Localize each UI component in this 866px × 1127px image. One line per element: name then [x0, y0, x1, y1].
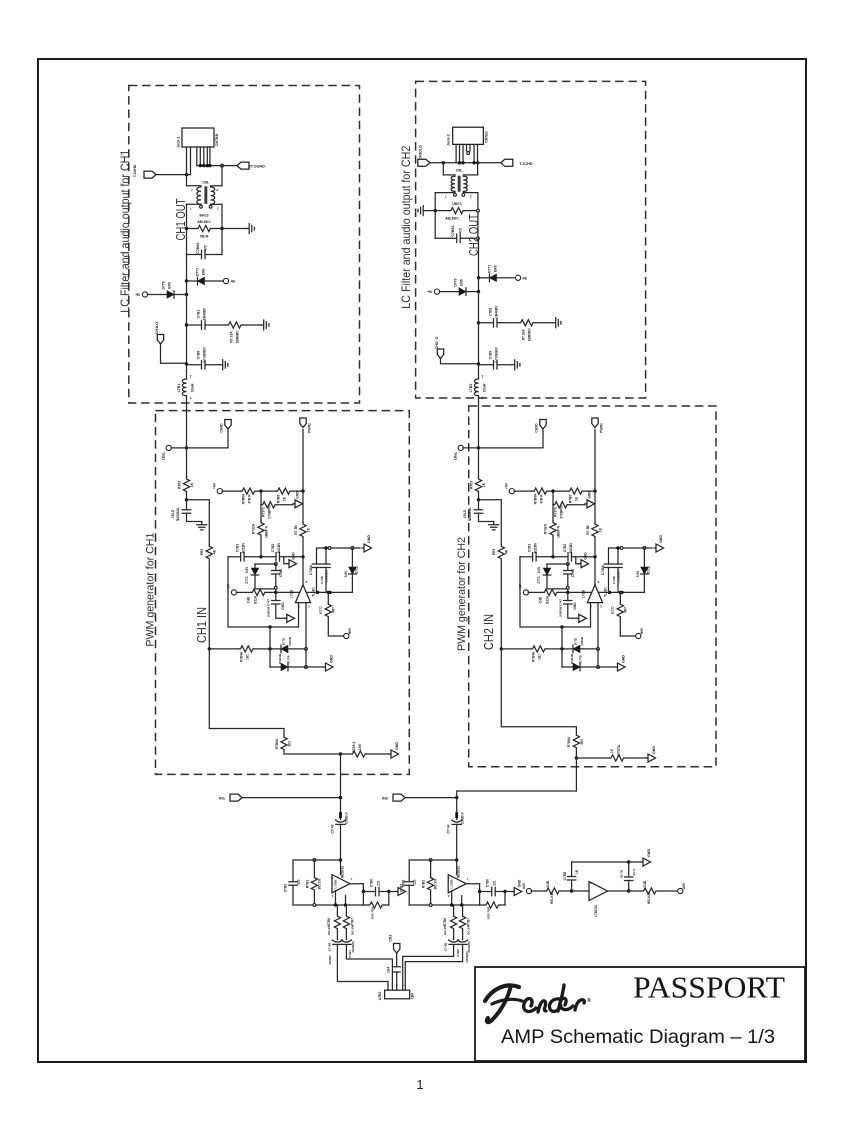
svg-text:R7B4A: R7B4A: [531, 651, 535, 662]
svg-text:ER6: ER6: [460, 279, 464, 286]
svg-text:R7B.7BR: R7B.7BR: [371, 906, 375, 920]
ground (earth): [489, 522, 499, 530]
wire to gnd arrow: [598, 666, 616, 668]
resistor R716A 47BR: [222, 490, 241, 492]
wire IN1 to trunk: [242, 797, 341, 799]
resistor R769 BO.1% (feedback): [313, 860, 315, 876]
resistor PR23 4K (trim): [498, 545, 504, 561]
resistor R721: [528, 591, 543, 593]
svg-text:B21BV: B21BV: [569, 542, 573, 553]
svg-text:R7 33A: R7 33A: [230, 331, 234, 343]
op-amp pin stubs to rail: [335, 891, 337, 905]
wire trunk: [478, 278, 480, 365]
wire to gnd arrow: [306, 666, 324, 668]
svg-text:C7B0: C7B0: [370, 879, 374, 887]
wire rail to R707: [260, 491, 262, 505]
wire CHD to trunk: [187, 429, 229, 448]
op-amp pin stubs: [590, 603, 592, 627]
wire to PR3: [187, 500, 210, 545]
resistor R713 1K: [186, 448, 188, 478]
svg-text:3K3: 3K3: [288, 741, 292, 747]
wire preamp out to connector (b): [405, 945, 462, 986]
svg-text:A8LEKC: A8LEKC: [197, 220, 211, 224]
wire preamp top rail: [293, 860, 341, 882]
svg-text:R732A: R732A: [252, 523, 256, 534]
terminal out (3rd stage): [678, 888, 683, 893]
svg-text:H9V: H9V: [640, 627, 644, 634]
svg-text:C7B2: C7B2: [563, 544, 567, 553]
diode D711 FR6: [187, 280, 198, 282]
capacitor C718 23UB6V: [332, 940, 342, 942]
svg-text:C4B: C4B: [546, 880, 550, 887]
svg-text:1B: 1B: [575, 869, 579, 874]
connector PWR1: [300, 418, 306, 428]
svg-text:R7 3B: R7 3B: [586, 525, 590, 535]
svg-text:C7B9: C7B9: [489, 351, 493, 360]
gnd arrow at output divider: [389, 753, 391, 755]
ground (earth): [197, 522, 207, 530]
wire bus from J701: [197, 165, 222, 167]
node 3rd stage input: [570, 889, 573, 892]
gnd arrow right cluster: [362, 547, 364, 549]
resistor PR13 4K (trim): [206, 545, 212, 561]
svg-text:3.UB0BV: 3.UB0BV: [617, 570, 621, 583]
node output: [575, 756, 578, 759]
resistor R754 (snubber): [435, 210, 449, 212]
svg-text:33uH: 33uH: [483, 383, 487, 392]
resistor R718 BO.1%: [336, 905, 338, 915]
svg-text:BA/13: BA/13: [199, 214, 208, 218]
inductor L72 33uH: [474, 379, 478, 396]
svg-text:1K: 1K: [610, 748, 614, 753]
svg-text:221: 221: [413, 879, 417, 885]
svg-text:Jack-1: Jack-1: [177, 136, 181, 147]
diode D714 1N4148: [270, 666, 281, 668]
svg-text:1N41B: 1N41B: [288, 637, 292, 646]
svg-text:C7B1: C7B1: [489, 307, 493, 316]
svg-text:23UB(6): 23UB(6): [465, 951, 469, 962]
svg-text:1: 1: [190, 396, 192, 400]
gnd arrow after R707: [277, 504, 293, 506]
ground (earth) at C: [512, 360, 520, 370]
svg-text:R7371: R7371: [554, 507, 558, 517]
node at trunk: [185, 362, 188, 365]
wire preamp out to connector (a): [337, 945, 388, 986]
dashed block: PWM generator for CH1: [156, 411, 410, 775]
svg-text:47B R: 47B R: [540, 494, 544, 504]
svg-text:C7 8B: C7 8B: [328, 942, 332, 951]
capacitor C726A: [608, 548, 610, 564]
svg-text:D7TD: D7TD: [574, 638, 578, 645]
svg-text:33uH: 33uH: [191, 383, 195, 392]
capacitor C716A: [316, 548, 318, 564]
svg-text:221: 221: [493, 880, 497, 886]
svg-text:®: ®: [587, 997, 591, 1004]
svg-text:1K: 1K: [307, 527, 311, 532]
capacitor C724 23UBV: [458, 940, 468, 942]
wire from CH2LO: [441, 359, 479, 364]
wire to T.2CH plug: [478, 162, 501, 164]
svg-text:1K: 1K: [599, 527, 603, 532]
terminal LINE: [166, 445, 171, 450]
svg-text:C7N0: C7N0: [279, 569, 283, 577]
resistor R712A: [258, 521, 264, 537]
wire to ground: [426, 210, 435, 212]
wire LINE to trunk: [463, 447, 479, 449]
connector J701 (speaker jack CH1): [182, 128, 214, 147]
svg-text:+B: +B: [522, 276, 527, 280]
wire preamp bottom rail: [409, 904, 479, 906]
svg-text:78LM: 78LM: [200, 235, 209, 239]
svg-text:BO.1%: BO.1%: [443, 925, 447, 935]
svg-text:1BuL: 1BuL: [162, 452, 166, 460]
svg-text:HELK24: HELK24: [647, 892, 651, 904]
wire trunk to PWM block: [186, 396, 188, 448]
svg-text:5.6V: 5.6V: [344, 570, 348, 577]
resistor R7H1 HELK24: [531, 890, 545, 892]
svg-text:C7B1: C7B1: [348, 950, 352, 958]
svg-text:+9V: +9V: [505, 482, 509, 489]
svg-text:R7B1: R7B1: [306, 880, 310, 889]
inductor L71 33uH: [182, 379, 186, 396]
wire bus from J751: [430, 162, 478, 164]
svg-text:+B: +B: [135, 293, 140, 297]
svg-text:CH3DLG: CH3DLG: [419, 145, 423, 160]
svg-text:ER6: ER6: [202, 269, 206, 276]
svg-text:1N414B: 1N414B: [278, 654, 282, 664]
diode D721 FR6: [479, 277, 490, 279]
svg-text:+9V: +9V: [213, 482, 217, 489]
svg-text:1N41B: 1N41B: [580, 637, 584, 646]
wire op-amp out: [608, 890, 629, 892]
svg-text:C7B2: C7B2: [271, 544, 275, 553]
svg-text:23UB0: 23UB0: [328, 955, 332, 965]
svg-text:A8LEKC: A8LEKC: [445, 217, 459, 221]
svg-text:4R7: 4R7: [624, 607, 628, 613]
diode D724 1N4148: [562, 666, 573, 668]
svg-text:47B R: 47B R: [248, 494, 252, 504]
svg-text:1BuL: 1BuL: [454, 452, 458, 460]
resistor R728 BO.1%: [453, 905, 455, 915]
svg-text:HELK24: HELK24: [550, 892, 554, 904]
svg-text:L: L: [190, 207, 192, 211]
svg-text:3UB0M C747: 3UB0M C747: [267, 599, 271, 618]
connector CB1 plug: [394, 944, 400, 954]
svg-text:GND: GND: [622, 655, 626, 663]
svg-text:ER6: ER6: [168, 282, 172, 289]
wire left to T.OUT plug: [156, 174, 191, 176]
svg-text:PWR1: PWR1: [308, 423, 312, 433]
svg-text:Jack-2: Jack-2: [447, 134, 451, 145]
svg-text:3.UB0BV: 3.UB0BV: [325, 570, 329, 583]
svg-text:CH1 IN: CH1 IN: [195, 607, 209, 643]
connector CH2DLG: [418, 159, 430, 166]
wire right cluster rail: [610, 547, 653, 549]
op-amp pin stubs: [298, 603, 300, 627]
node preamp rail: [455, 858, 458, 861]
svg-text:R777: R777: [319, 606, 323, 614]
svg-text:1BR0BV: 1BR0BV: [236, 330, 240, 344]
connector JA7B2 pins: [387, 986, 389, 991]
svg-text:GND: GND: [367, 535, 371, 543]
op-amp U71A NE5532 (preamp): [332, 875, 350, 893]
zener diode Z721 5.6V: [546, 564, 548, 568]
resistor R71B out: [363, 904, 368, 906]
resistor R727 BO.1%: [462, 905, 464, 915]
transformer CN1 (LC filter coil): [186, 175, 188, 186]
svg-text:1BBP N: 1BBP N: [265, 525, 269, 538]
resistor R725 1K: [549, 490, 568, 492]
wire trunk: [186, 365, 188, 379]
svg-text:GND: GND: [647, 849, 651, 857]
title block frame: [475, 967, 805, 1061]
capacitor C711 1B40BV: [185, 323, 188, 326]
svg-text:3K3: 3K3: [580, 739, 584, 745]
svg-text:Z7T1: Z7T1: [537, 576, 541, 584]
node output: [339, 752, 342, 755]
wire preamp out to connector (a): [403, 945, 454, 986]
gnd arrow at diode pair: [616, 666, 618, 668]
wire cluster loop: [228, 557, 299, 627]
svg-text:BO.1%: BO.1%: [467, 925, 471, 935]
wire LINE to trunk: [171, 447, 187, 449]
zener diode Z722 5.6V: [643, 548, 645, 567]
resistor R715 1K: [257, 490, 276, 492]
terminal -9V: [636, 633, 641, 638]
node below R703: [185, 498, 188, 501]
diode D713 1N4148: [270, 648, 281, 650]
resistor R723 1K: [478, 448, 480, 478]
Fender script logo: [485, 985, 584, 1022]
svg-text:C4B: C4B: [643, 880, 647, 887]
capacitor C715 to ground: [186, 500, 188, 510]
svg-text:D7T6: D7T6: [162, 281, 166, 289]
wire LC loop: [186, 204, 188, 255]
svg-text:C7B0: C7B0: [486, 879, 490, 887]
svg-text:H9V: H9V: [348, 627, 352, 634]
capacitor C714 23UBV: [341, 940, 351, 942]
svg-text:1B1: 1B1: [537, 654, 541, 660]
resistor R708A 3K3: [281, 736, 287, 752]
svg-text:C7B9: C7B9: [197, 351, 201, 360]
dashed block: LC Filter and audio output for CH2: [416, 81, 646, 398]
svg-text:5.6V: 5.6V: [636, 570, 640, 577]
wire op-amp output: [466, 884, 479, 892]
wire loop stub to diode node: [561, 627, 563, 649]
svg-text:B21BV: B21BV: [534, 542, 538, 553]
ground (earth) at LC loop: [246, 224, 254, 234]
svg-text:1K: 1K: [283, 496, 287, 501]
op-amp pin stubs to rail: [451, 891, 453, 905]
capacitor C711 B21BV: [228, 556, 241, 558]
wire cluster loop: [520, 557, 591, 627]
capacitor C7BC: [628, 881, 630, 892]
svg-text:5.6V: 5.6V: [245, 566, 249, 573]
capacitor C744 23UB.V (input coupling): [456, 798, 458, 820]
connector CH1LO: [157, 335, 163, 345]
svg-text:C7 43: C7 43: [331, 824, 335, 833]
transformer CN2 (LC filter coil): [442, 163, 444, 175]
svg-text:B21BV: B21BV: [242, 542, 246, 553]
svg-text:BO.1%: BO.1%: [434, 879, 438, 890]
diode D712 FR6: [142, 292, 147, 297]
svg-text:C74B: C74B: [320, 575, 324, 584]
wire diode loop: [269, 649, 271, 667]
connector PWR2: [592, 418, 598, 428]
svg-text:IN1: IN1: [219, 797, 225, 801]
resistor R714A input: [209, 648, 239, 650]
svg-text:C746A: C746A: [601, 564, 605, 575]
svg-text:UB/T3: UB/T3: [452, 202, 461, 206]
svg-text:D7TB: D7TB: [579, 655, 583, 662]
svg-text:L7DB: L7DB: [290, 589, 294, 598]
resistor R7H2 HELK24: [629, 890, 642, 892]
svg-text:472: 472: [204, 245, 208, 251]
svg-text:PR3: PR3: [200, 549, 204, 556]
svg-text:CH3D: CH3D: [220, 423, 224, 433]
svg-text:PWR1: PWR1: [600, 423, 604, 433]
connector IN1: [230, 794, 242, 801]
svg-text:AMP Schematic Diagram – 1/3: AMP Schematic Diagram – 1/3: [501, 1026, 775, 1048]
capacitor C762 221 (feedback): [289, 882, 297, 886]
wire from CH1LO: [161, 344, 187, 363]
svg-text:+B: +B: [427, 290, 432, 294]
svg-text:Z7T2: Z7T2: [647, 566, 651, 574]
gnd arrow below C747: [577, 617, 579, 619]
svg-text:2: 2: [190, 375, 192, 379]
capacitor C758A 472: [435, 237, 457, 239]
svg-text:R7B8A: R7B8A: [567, 736, 571, 747]
svg-text:23UB(6): 23UB(6): [467, 941, 471, 952]
capacitor C728 23UB6V: [449, 940, 459, 942]
svg-text:R732A: R732A: [544, 523, 548, 534]
terminal +9V at R711: [523, 590, 528, 595]
svg-text:C74B: C74B: [612, 575, 616, 584]
svg-text:C8L: C8L: [202, 180, 210, 184]
svg-text:D7TB: D7TB: [287, 655, 291, 662]
terminal +B: [515, 275, 520, 280]
capacitor C710: [275, 564, 277, 571]
svg-text:C7B9: C7B9: [456, 949, 460, 957]
svg-text:R7TETA: R7TETA: [617, 744, 621, 757]
svg-text:D7TD: D7TD: [282, 638, 286, 645]
wire output loop: [362, 892, 364, 906]
svg-text:4.7UB0BV: 4.7UB0BV: [495, 346, 499, 363]
svg-text:R7 3B: R7 3B: [294, 525, 298, 535]
svg-text:GND: GND: [330, 655, 334, 663]
connector T.OUT-CH1: [144, 171, 156, 178]
svg-text:C7 8B: C7 8B: [444, 942, 448, 951]
capacitor C767 221: [480, 891, 492, 893]
resistor R729 (carrier): [592, 523, 598, 539]
wire comparator output row: [599, 591, 645, 593]
svg-text:C7N0: C7N0: [571, 569, 575, 577]
zener diode Z711 5.6V: [254, 564, 256, 568]
ground (earth) at C: [220, 360, 228, 370]
connector IN2: [393, 794, 405, 801]
svg-text:C4B: C4B: [539, 596, 543, 603]
svg-text:T.3UHD: T.3UHD: [133, 164, 137, 177]
diode D722 FR6: [434, 289, 439, 294]
gnd arrow mid: [576, 557, 579, 564]
wire trunk to PWM block: [478, 396, 480, 448]
svg-text:4K: 4K: [505, 549, 509, 554]
resistor R756A 1BK: [576, 757, 609, 759]
svg-text:C7B1: C7B1: [236, 544, 240, 553]
svg-text:1B40BV: 1B40BV: [495, 305, 499, 318]
svg-text:C746A: C746A: [309, 564, 313, 575]
resistor R726A 47BR: [514, 490, 533, 492]
svg-text:CH1LO: CH1LO: [155, 322, 159, 334]
node below R703: [477, 498, 480, 501]
resistor R727 270BP: [552, 505, 554, 521]
svg-text:A8V: A8V: [682, 882, 686, 889]
svg-text:+B: +B: [230, 280, 235, 284]
svg-text:GND: GND: [281, 602, 285, 610]
zener diode Z712 5.6V: [351, 548, 353, 567]
svg-text:R7371: R7371: [262, 507, 266, 517]
svg-text:221: 221: [297, 879, 301, 885]
svg-text:1BLD: 1BLD: [171, 509, 175, 518]
op-amp U7C LM358C (headphone): [589, 882, 608, 901]
connector J751 (speaker jack CH2): [453, 127, 484, 144]
svg-text:1B.7B: 1B.7B: [620, 869, 624, 878]
svg-text:PWM generator for CH1: PWM generator for CH1: [145, 533, 157, 647]
capacitor C727 to gnd: [567, 592, 569, 600]
svg-text:EL.D: EL.D: [632, 868, 636, 876]
connector CH1D: [225, 420, 231, 430]
wire to ground: [222, 228, 246, 230]
svg-text:GND: GND: [584, 552, 588, 560]
svg-text:+9V: +9V: [227, 583, 231, 590]
svg-text:A7B2: A7B2: [378, 992, 382, 1001]
diode D723 1N4148: [562, 648, 573, 650]
svg-text:270BP/N: 270BP/N: [268, 505, 272, 519]
svg-text:CN7BB: CN7BB: [215, 133, 219, 146]
svg-text:BO.1%: BO.1%: [351, 925, 355, 935]
svg-text:N000BUL: N000BUL: [176, 507, 180, 521]
svg-text:CN7B1: CN7B1: [485, 131, 489, 143]
wire 3rd stage top rail: [572, 861, 629, 863]
svg-text:D7T1: D7T1: [196, 268, 200, 276]
svg-text:NE5B32: NE5B32: [341, 866, 345, 878]
svg-text:4R7: 4R7: [332, 607, 336, 613]
svg-text:ER6: ER6: [494, 265, 498, 272]
svg-text:4K: 4K: [213, 549, 217, 554]
svg-text:1B4: 1B4: [411, 993, 415, 999]
svg-text:R7 33A: R7 33A: [522, 329, 526, 341]
node STOUT-CH1: [221, 164, 224, 167]
capacitor C729 4.7UB0BV: [479, 364, 494, 366]
svg-text:C7B2: C7B2: [284, 884, 288, 893]
connector CH2LO: [437, 349, 443, 359]
svg-text:C7BB: C7BB: [563, 871, 567, 880]
svg-text:1G4: 1G4: [387, 967, 391, 973]
connector CH2D: [540, 420, 546, 430]
gnd arrow at preamp out: [396, 891, 398, 893]
svg-text:LC Filter and audio output for: LC Filter and audio output for CH2: [399, 145, 413, 308]
svg-text:PR3: PR3: [492, 549, 496, 556]
capacitor C743 23UB.V (input coupling): [340, 798, 342, 820]
capacitor C721 1B40BV: [477, 321, 480, 324]
wire trunk: [186, 281, 188, 365]
svg-text:PWM generator for CH2: PWM generator for CH2: [456, 537, 468, 651]
terminal +B: [223, 278, 228, 283]
svg-text:1K: 1K: [575, 496, 579, 501]
svg-text:C8L: C8L: [456, 169, 464, 173]
svg-text:2: 2: [482, 375, 484, 379]
svg-text:B21BV: B21BV: [277, 542, 281, 553]
